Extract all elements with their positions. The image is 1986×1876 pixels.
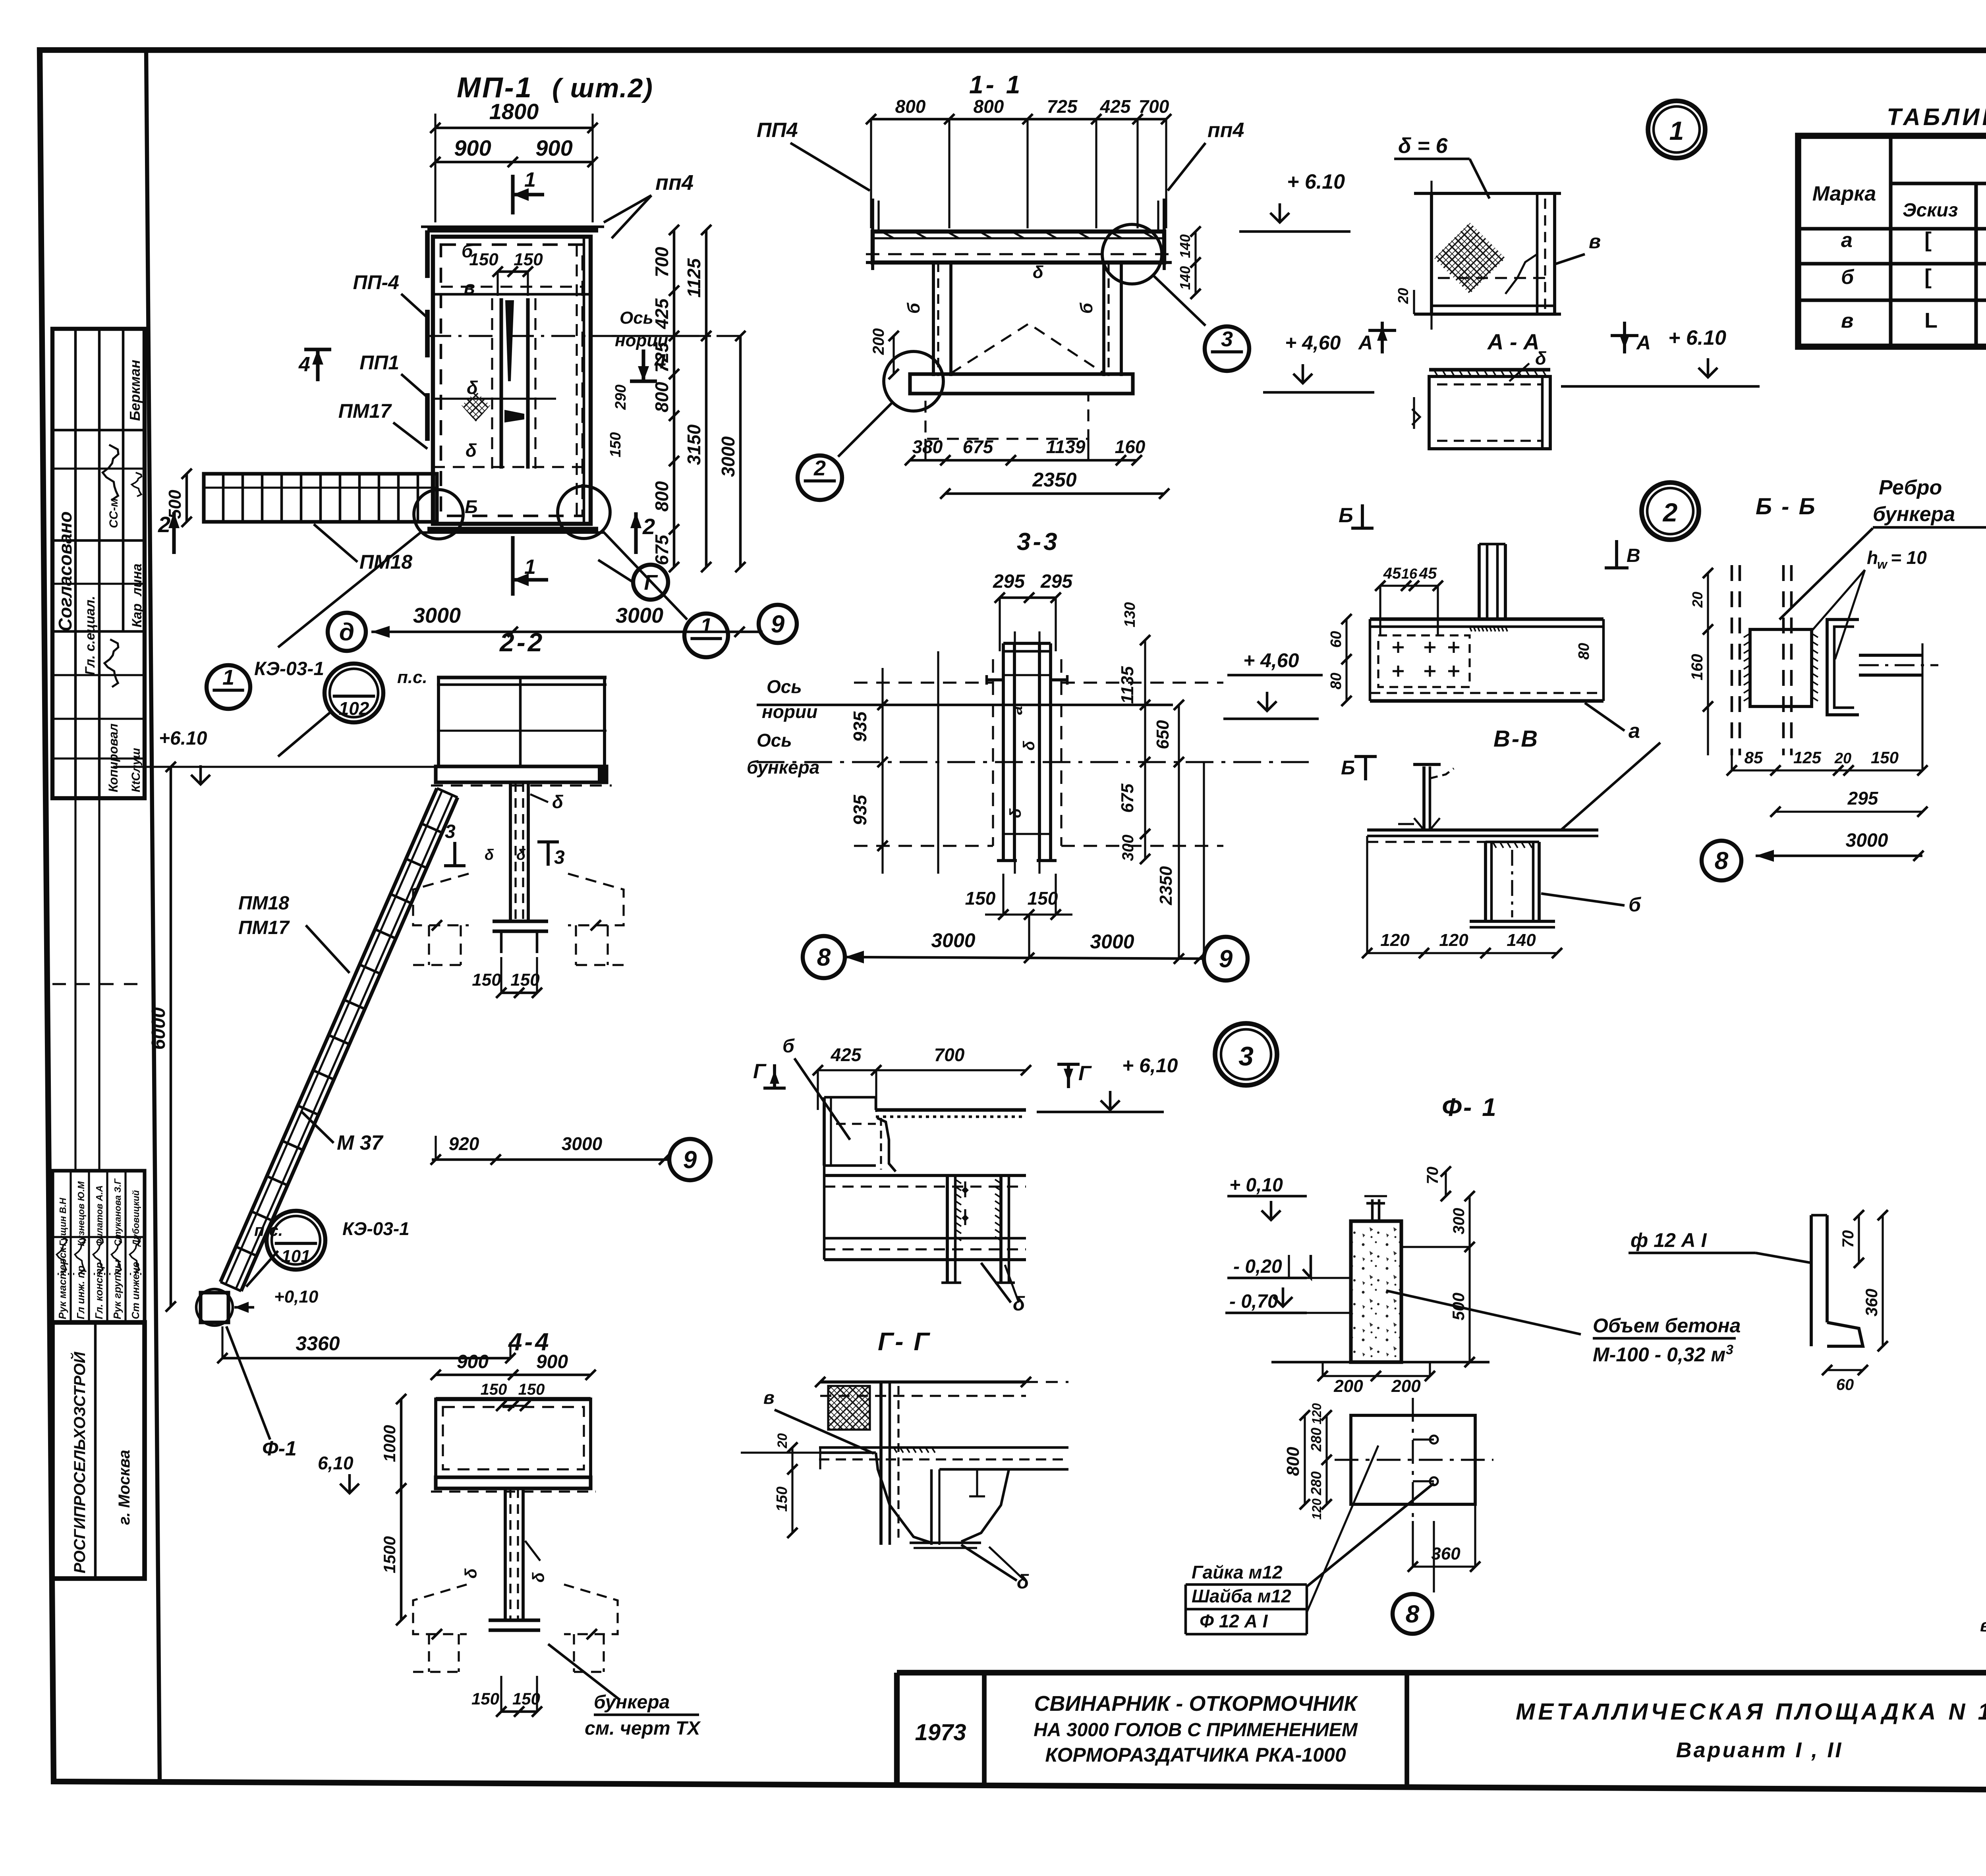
svg-text:300: 300 (1450, 1208, 1468, 1235)
svg-text:( шт.2): ( шт.2) (552, 73, 653, 103)
svg-text:800: 800 (1283, 1447, 1303, 1476)
svg-text:δ: δ (462, 1568, 480, 1579)
svg-text:150: 150 (469, 250, 498, 269)
svg-text:Ф-1: Ф-1 (262, 1437, 297, 1460)
svg-text:900: 900 (457, 1351, 489, 1372)
svg-text:800: 800 (974, 96, 1004, 117)
svg-text:2: 2 (1662, 498, 1678, 527)
svg-text:45: 45 (1383, 565, 1401, 582)
svg-text:300: 300 (1119, 835, 1137, 861)
svg-text:120: 120 (1310, 1403, 1324, 1424)
svg-text:А: А (1636, 332, 1651, 354)
svg-text:д: д (339, 619, 354, 646)
svg-text:3: 3 (1221, 327, 1233, 351)
svg-text:[: [ (1924, 265, 1932, 289)
svg-text:Б: Б (465, 496, 478, 517)
svg-text:h: h (1867, 547, 1878, 568)
svg-text:3: 3 (1726, 1342, 1733, 1357)
svg-text:935: 935 (850, 794, 870, 825)
svg-text:150: 150 (1871, 748, 1899, 767)
svg-text:+ 4,60: + 4,60 (1285, 332, 1341, 354)
svg-text:85: 85 (1745, 748, 1763, 767)
svg-text:ТАБЛИЦА ЭЛЕМЕНТОВ КОНСТРУК: ТАБЛИЦА ЭЛЕМЕНТОВ КОНСТРУКЦИЙ (1887, 103, 1986, 130)
svg-text:150: 150 (518, 1381, 545, 1398)
svg-text:Беркман: Беркман (127, 360, 143, 421)
svg-text:δ: δ (516, 847, 526, 863)
svg-text:3360: 3360 (296, 1332, 340, 1355)
svg-text:б: б (1077, 302, 1096, 314)
svg-text:б: б (904, 302, 923, 314)
svg-text:8: 8 (1406, 1601, 1420, 1628)
svg-text:295: 295 (1847, 788, 1879, 809)
svg-text:Объем бетона: Объем бетона (1593, 1314, 1741, 1337)
svg-text:1135: 1135 (1118, 666, 1137, 704)
svg-text:ПМ17: ПМ17 (238, 917, 290, 938)
svg-text:КОРМОРАЗДАТЧИКА РКА-1000: КОРМОРАЗДАТЧИКА РКА-1000 (1045, 1744, 1346, 1766)
svg-text:9: 9 (683, 1146, 697, 1174)
svg-text:8: 8 (1715, 847, 1729, 875)
svg-text:160: 160 (1688, 654, 1706, 681)
svg-text:б: б (782, 1036, 795, 1057)
svg-text:130: 130 (1122, 602, 1138, 627)
svg-text:Г: Г (1078, 1062, 1092, 1085)
svg-text:140: 140 (1507, 930, 1536, 950)
svg-text:- 0,70: - 0,70 (1229, 1291, 1278, 1312)
svg-text:675: 675 (651, 534, 672, 565)
svg-text:2350: 2350 (1156, 866, 1176, 905)
svg-text:Ф 12 А I: Ф 12 А I (1200, 1611, 1268, 1631)
svg-text:6,10: 6,10 (318, 1453, 354, 1473)
svg-text:1800: 1800 (489, 99, 539, 124)
svg-text:пп4: пп4 (1207, 119, 1244, 142)
svg-text:150: 150 (965, 888, 996, 909)
svg-text:[: [ (1924, 228, 1932, 252)
svg-text:120: 120 (1310, 1498, 1324, 1520)
svg-text:Эскиз: Эскиз (1903, 200, 1958, 221)
svg-text:150: 150 (514, 250, 543, 269)
svg-text:δ: δ (1535, 348, 1547, 369)
svg-text:бункера: бункера (747, 757, 819, 778)
svg-text:140: 140 (1177, 266, 1193, 290)
svg-text:п.с.: п.с. (397, 668, 427, 687)
svg-text:900: 900 (454, 135, 491, 160)
svg-text:δ: δ (1020, 741, 1038, 751)
svg-text:а: а (1008, 706, 1026, 715)
svg-text:20: 20 (775, 1433, 790, 1449)
svg-text:2350: 2350 (1032, 469, 1076, 491)
svg-text:нории: нории (615, 331, 668, 350)
svg-text:+0,10: +0,10 (274, 1287, 319, 1307)
svg-text:Копировал: Копировал (106, 724, 120, 792)
svg-text:п.с.: п.с. (254, 1221, 283, 1239)
svg-text:Ось: Ось (767, 676, 802, 697)
svg-text:675: 675 (963, 436, 994, 457)
svg-text:800: 800 (895, 96, 926, 117)
svg-text:1- 1: 1- 1 (969, 70, 1022, 99)
svg-text:в: в (1589, 230, 1601, 253)
svg-text:295: 295 (993, 571, 1025, 592)
svg-text:б: б (462, 241, 473, 261)
svg-text:150: 150 (607, 432, 624, 457)
svg-text:3000: 3000 (413, 604, 461, 627)
svg-text:δ: δ (467, 377, 478, 398)
svg-text:L: L (1924, 309, 1938, 332)
svg-text:2-2: 2-2 (499, 627, 545, 657)
svg-text:ПП-4: ПП-4 (353, 271, 399, 293)
svg-text:160: 160 (1115, 436, 1146, 457)
svg-text:3000: 3000 (1846, 830, 1888, 851)
svg-text:360: 360 (1862, 1289, 1881, 1316)
svg-text:1: 1 (524, 168, 536, 191)
svg-text:- 0,20: - 0,20 (1233, 1256, 1282, 1277)
svg-text:200: 200 (870, 328, 887, 355)
svg-text:Ось: Ось (757, 730, 792, 751)
svg-text:1500: 1500 (380, 1536, 399, 1573)
svg-text:Гл. с.ециал.: Гл. с.ециал. (83, 596, 98, 675)
svg-text:а: а (1841, 229, 1853, 252)
svg-text:3000: 3000 (616, 604, 663, 627)
svg-text:А - А: А - А (1487, 329, 1540, 354)
svg-text:В: В (1627, 545, 1640, 566)
svg-text:935: 935 (850, 711, 870, 742)
svg-text:бункера: бункера (1873, 503, 1955, 526)
svg-text:в: в (763, 1387, 775, 1408)
svg-text:δ: δ (1033, 262, 1043, 282)
svg-text:20: 20 (1395, 288, 1411, 304)
svg-text:Г- Г: Г- Г (878, 1327, 931, 1356)
svg-text:+ 6,10: + 6,10 (1122, 1054, 1178, 1077)
svg-text:РОСГИПРОСЕЛЬХОЗСТРОЙ: РОСГИПРОСЕЛЬХОЗСТРОЙ (70, 1351, 89, 1573)
svg-text:+ 6.10: + 6.10 (1668, 326, 1726, 349)
svg-text:3150: 3150 (684, 424, 704, 465)
svg-text:1: 1 (524, 556, 536, 579)
svg-text:9: 9 (771, 611, 785, 638)
svg-text:ф 12 А I: ф 12 А I (1631, 1229, 1707, 1251)
svg-text:200: 200 (1391, 1376, 1421, 1396)
svg-text:4: 4 (298, 353, 310, 376)
svg-text:МЕТАЛЛИЧЕСКАЯ ПЛОЩАДКА N: МЕТАЛЛИЧЕСКАЯ ПЛОЩАДКА N 1. (1516, 1699, 1986, 1725)
svg-text:3: 3 (554, 847, 565, 868)
svg-text:290: 290 (612, 384, 629, 410)
svg-text:ПМ17: ПМ17 (338, 400, 392, 422)
svg-text:М 37: М 37 (337, 1131, 384, 1154)
svg-text:вернуть и покрасить масляно: вернуть и покрасить масляной краской за … (1980, 1616, 1986, 1635)
svg-text:150: 150 (774, 1486, 790, 1511)
svg-text:1125: 1125 (684, 258, 704, 297)
svg-text:70: 70 (1839, 1230, 1857, 1248)
svg-text:КЭ-03-1: КЭ-03-1 (254, 658, 324, 679)
svg-text:1000: 1000 (380, 1425, 399, 1462)
svg-text:Шайба м12: Шайба м12 (1192, 1586, 1291, 1606)
svg-text:Б: Б (1339, 504, 1353, 527)
svg-text:125: 125 (1793, 748, 1822, 767)
svg-text:700: 700 (651, 247, 672, 277)
svg-text:3-3: 3-3 (1017, 528, 1060, 556)
svg-text:800: 800 (651, 382, 672, 412)
svg-text:δ = 6: δ = 6 (1398, 134, 1448, 158)
svg-text:425: 425 (651, 298, 672, 329)
svg-text:2: 2 (813, 456, 826, 480)
svg-text:1: 1 (1669, 116, 1684, 145)
svg-text:В-В: В-В (1493, 726, 1539, 752)
svg-text:920: 920 (449, 1133, 479, 1154)
svg-text:45: 45 (1419, 565, 1437, 582)
svg-text:3000: 3000 (562, 1133, 603, 1154)
svg-text:пп4: пп4 (655, 171, 694, 195)
svg-text:101: 101 (281, 1247, 310, 1266)
svg-text:1139: 1139 (1046, 436, 1086, 457)
svg-text:1: 1 (222, 666, 234, 689)
svg-text:Кар_лина: Кар_лина (129, 564, 145, 627)
svg-text:δ: δ (529, 1572, 548, 1583)
svg-text:60: 60 (1836, 1376, 1854, 1393)
svg-text:150: 150 (1028, 888, 1058, 909)
svg-text:Марка: Марка (1812, 182, 1876, 205)
svg-text:Г: Г (644, 571, 658, 594)
svg-text:СВИНАРНИК - ОТКОРМОЧНИК: СВИНАРНИК - ОТКОРМОЧНИК (1034, 1692, 1359, 1716)
svg-text:700: 700 (934, 1044, 965, 1065)
svg-text:нории: нории (762, 701, 817, 722)
svg-text:δ: δ (552, 791, 564, 812)
svg-text:в: в (464, 277, 475, 298)
svg-text:20: 20 (1689, 592, 1706, 608)
svg-text:= 10: = 10 (1891, 547, 1927, 568)
svg-text:200: 200 (1333, 1376, 1363, 1396)
svg-text:+ 4,60: + 4,60 (1243, 649, 1299, 672)
svg-text:3000: 3000 (1090, 930, 1134, 953)
svg-text:Г: Г (753, 1060, 767, 1083)
svg-text:360: 360 (1431, 1544, 1461, 1563)
svg-text:см. черт ТХ: см. черт ТХ (585, 1718, 701, 1739)
svg-text:w: w (1877, 557, 1888, 571)
svg-text:1973: 1973 (915, 1720, 966, 1745)
svg-text:3: 3 (1238, 1041, 1254, 1071)
svg-text:δ: δ (466, 440, 477, 461)
svg-text:Стуканова З.Г: Стуканова З.Г (112, 1178, 123, 1246)
svg-text:КtСлуш: КtСлуш (129, 748, 143, 792)
svg-text:120: 120 (1380, 930, 1410, 950)
svg-text:1: 1 (700, 614, 712, 638)
svg-text:120: 120 (1439, 930, 1468, 950)
svg-text:а: а (1629, 720, 1640, 743)
svg-text:А: А (1358, 332, 1373, 354)
svg-text:675: 675 (1118, 784, 1137, 813)
svg-text:б: б (1841, 266, 1855, 289)
svg-text:Ось: Ось (620, 308, 653, 328)
svg-text:Согласовано: Согласовано (55, 511, 75, 631)
svg-text:3000: 3000 (718, 436, 738, 477)
svg-text:Гл. констр: Гл. констр (93, 1262, 105, 1319)
svg-text:3000: 3000 (931, 929, 975, 952)
svg-text:6000: 6000 (148, 1007, 169, 1050)
svg-text:бункера: бункера (594, 1692, 670, 1713)
svg-text:150: 150 (471, 1689, 499, 1708)
svg-text:900: 900 (536, 1351, 568, 1372)
svg-text:δ: δ (1013, 1293, 1025, 1315)
svg-text:δ: δ (1007, 808, 1024, 818)
svg-text:КЭ-03-1: КЭ-03-1 (342, 1218, 410, 1239)
svg-text:20: 20 (1834, 750, 1851, 767)
svg-text:700: 700 (1139, 96, 1169, 117)
svg-text:г. Москва: г. Москва (116, 1450, 133, 1525)
svg-text:+ 0,10: + 0,10 (1229, 1175, 1283, 1196)
svg-text:295: 295 (1040, 571, 1073, 592)
svg-text:70: 70 (1424, 1167, 1441, 1185)
svg-text:380: 380 (912, 436, 943, 457)
svg-text:+6.10: +6.10 (159, 728, 207, 749)
svg-text:δ: δ (485, 847, 494, 863)
svg-text:725: 725 (1047, 96, 1078, 117)
svg-text:425: 425 (1100, 96, 1131, 117)
svg-text:280: 280 (1308, 1428, 1324, 1452)
svg-text:150: 150 (481, 1381, 507, 1398)
svg-text:ПП4: ПП4 (757, 119, 798, 142)
svg-text:Ребро: Ребро (1879, 476, 1942, 499)
svg-text:150: 150 (472, 970, 501, 990)
svg-text:Б: Б (1341, 757, 1355, 779)
svg-text:+ 6.10: + 6.10 (1287, 170, 1345, 193)
svg-text:16: 16 (1401, 566, 1418, 582)
svg-text:280: 280 (1308, 1471, 1324, 1496)
svg-text:М-100 - 0,32 м: М-100 - 0,32 м (1593, 1343, 1725, 1366)
svg-text:8: 8 (817, 944, 831, 971)
svg-text:650: 650 (1153, 720, 1173, 749)
svg-text:Б - Б: Б - Б (1756, 494, 1817, 519)
svg-text:Гайка м12: Гайка м12 (1192, 1562, 1283, 1583)
svg-text:ПП1: ПП1 (359, 351, 399, 374)
svg-text:2: 2 (158, 512, 170, 537)
svg-text:425: 425 (831, 1044, 862, 1065)
svg-text:Гл инж. пр: Гл инж. пр (75, 1266, 87, 1319)
svg-text:в: в (1841, 309, 1853, 332)
svg-text:ПМ18: ПМ18 (238, 893, 289, 914)
svg-text:140: 140 (1177, 234, 1193, 258)
svg-text:60: 60 (1328, 631, 1345, 648)
svg-text:Вариант I , II: Вариант I , II (1676, 1738, 1843, 1762)
svg-text:СС-м: СС-м (107, 498, 120, 528)
svg-text:80: 80 (1576, 643, 1592, 660)
svg-text:НА 3000 ГОЛОВ С ПРИМЕНЕНИЕМ: НА 3000 ГОЛОВ С ПРИМЕНЕНИЕМ (1034, 1720, 1358, 1741)
svg-text:900: 900 (535, 135, 572, 160)
svg-text:800: 800 (651, 481, 672, 511)
svg-text:150: 150 (510, 970, 540, 990)
svg-text:Ф- 1: Ф- 1 (1442, 1093, 1498, 1121)
svg-text:б: б (1629, 894, 1642, 916)
svg-text:9: 9 (1219, 946, 1233, 973)
svg-text:80: 80 (1328, 673, 1345, 689)
svg-text:102: 102 (339, 698, 369, 719)
svg-text:Дубовицкий: Дубовицкий (131, 1190, 141, 1247)
